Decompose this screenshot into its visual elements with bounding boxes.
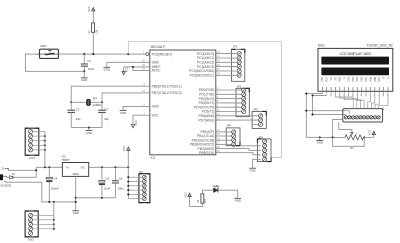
node junction C1/reset xyxy=(83,53,85,55)
JP6 pad 4 xyxy=(355,116,358,119)
ground GND (JP5) xyxy=(249,167,256,169)
svg-text:JP2: JP2 xyxy=(237,84,242,88)
node junction pot-left xyxy=(332,136,334,138)
JP5 pad 1 xyxy=(263,139,267,143)
wire contrast branch to header pad2 xyxy=(306,110,345,112)
LCD pin 15 A xyxy=(383,87,385,91)
svg-text:GND: GND xyxy=(250,169,256,173)
wire PD2(INT0) to JP2 pin 3 xyxy=(220,98,241,100)
resistor R2 220 xyxy=(201,194,204,203)
JP2 pad 3 xyxy=(242,97,246,101)
wire IC2 GND pin to ground xyxy=(75,176,77,210)
wire pot loop (wiper return) xyxy=(333,137,365,146)
svg-text:VO: VO xyxy=(330,77,333,81)
wire IC1 VCC pin7 xyxy=(133,115,145,122)
wire GND header bus up xyxy=(53,202,55,229)
wire AREF pin to VCC xyxy=(124,66,146,68)
wire PC1(ADC1) to JP1 pin 2 xyxy=(220,57,237,59)
node junction C4/ground bus xyxy=(48,201,50,203)
JP1 pad 1 xyxy=(237,52,241,56)
svg-text:PC3(ADC3): PC3(ADC3) xyxy=(197,65,214,69)
LCD pin 11 DB4 xyxy=(365,87,367,91)
wire stub LCD pin15 xyxy=(383,94,385,96)
power symbol VCC (LED1) xyxy=(189,194,191,206)
5V header pad 2 xyxy=(142,180,146,184)
svg-text:3: 3 xyxy=(238,99,239,101)
pin 26 PC3(ADC3) xyxy=(216,66,221,68)
wire XTAL2 PB7 to crystal xyxy=(102,93,145,102)
LCD pin 13 DB6 xyxy=(374,87,376,91)
JP2 pad 5 xyxy=(242,105,246,109)
JP2 pad 4 xyxy=(242,101,246,105)
GND header pad 2 xyxy=(29,218,33,222)
wire AVCC pin joins AREF net xyxy=(133,67,146,71)
pin 4 PD2(INT0) xyxy=(216,98,221,100)
crystal Q1 12MHz xyxy=(85,100,87,106)
wire PB1 to JP4 pin 2 xyxy=(220,135,231,137)
svg-text:R/W: R/W xyxy=(339,76,342,81)
node junction 12VX rail xyxy=(44,166,46,168)
svg-text:4: 4 xyxy=(238,103,239,105)
wire reset net SW1 to IC1 pin PC6 xyxy=(58,53,145,55)
svg-text:12MHz: 12MHz xyxy=(93,103,102,107)
pin 27 PC4(ADC4/SDA) xyxy=(216,70,221,72)
svg-text:VCC: VCC xyxy=(183,192,187,198)
svg-text:100n: 100n xyxy=(117,186,124,190)
svg-text:GND: GND xyxy=(317,141,323,145)
wire jack sleeve to ground bus xyxy=(5,182,76,202)
pin 12 PD6(AIN0) xyxy=(216,115,221,117)
svg-text:2: 2 xyxy=(254,120,255,122)
pin 6 PD4(XCK/T0) xyxy=(216,106,221,108)
pin 16 PB2(SS/OC1B) xyxy=(216,139,221,141)
node junction C4 rail xyxy=(48,166,50,168)
power symbol VCC (5V rail) xyxy=(127,148,129,167)
node junction VSS rail xyxy=(305,93,307,95)
pin 8 GND xyxy=(145,105,149,107)
JP6 pad 8 xyxy=(370,116,373,119)
5V header pad 1 xyxy=(142,175,146,179)
ground GND (pin22) xyxy=(103,66,110,68)
wire LCD VDD (pin2) to header pad1 xyxy=(313,95,346,114)
svg-text:DB6: DB6 xyxy=(374,76,377,81)
wire R1 to reset net xyxy=(92,32,94,54)
JP3 pad 2 xyxy=(258,118,262,122)
svg-text:3: 3 xyxy=(234,62,235,64)
svg-text:4: 4 xyxy=(234,67,235,69)
svg-text:6: 6 xyxy=(238,111,239,113)
node junction crystal-gnd xyxy=(88,127,90,129)
wire LCD VSS (pin1) to contrast/ground rail xyxy=(306,94,322,138)
JP3 pad 1 xyxy=(258,114,262,118)
JP4 pad 2 xyxy=(232,134,236,138)
wire jack switch pin through D1 xyxy=(7,176,10,178)
JP6 pad 10 xyxy=(377,116,380,119)
wire R2 to LED1 xyxy=(202,190,213,194)
svg-text:1k: 1k xyxy=(356,133,358,135)
LCD pin 16 K xyxy=(387,87,389,91)
node junction conn/gnd bus xyxy=(53,201,55,203)
LCD pin 2 VDD xyxy=(326,87,328,91)
svg-text:1: 1 xyxy=(259,141,260,143)
pin 22 GND xyxy=(145,61,149,63)
wire stub LCD pin7 xyxy=(348,94,350,96)
wire stub LCD pin10 xyxy=(361,94,363,96)
svg-text:7805T: 7805T xyxy=(62,158,70,162)
svg-text:2: 2 xyxy=(238,94,239,96)
wire 5V pin 4 xyxy=(128,189,142,191)
svg-text:12VX: 12VX xyxy=(29,156,36,160)
LCD pin 1 VSS xyxy=(321,87,323,91)
ground GND (pin8) xyxy=(120,110,127,112)
wire 12VX bus down to rail xyxy=(44,132,46,168)
wire 5V pin 6 xyxy=(128,198,142,200)
wire 5V bus down xyxy=(127,167,129,198)
JP5 pad 2 xyxy=(263,144,267,148)
wire SW1 return to ground xyxy=(25,54,84,71)
pin 2 PD0(RXD) xyxy=(216,89,221,91)
svg-text:JP4: JP4 xyxy=(226,124,231,128)
ground GND (regulator) xyxy=(72,210,79,212)
connector GND header (bottom-left) xyxy=(25,211,38,237)
capacitor C1 100n xyxy=(83,54,85,64)
svg-text:PB7(XTAL2/TOSC2): PB7(XTAL2/TOSC2) xyxy=(152,91,182,95)
JP2 pad 6 xyxy=(242,109,246,113)
svg-text:3: 3 xyxy=(228,140,229,142)
wire PB2 to JP4 pin 3 xyxy=(220,139,231,141)
wire PD4(XCK/T0) to JP2 pin 5 xyxy=(220,106,241,108)
wire header to pot left xyxy=(333,120,343,138)
GND header pad 5 xyxy=(29,231,33,235)
svg-text:JP1: JP1 xyxy=(233,44,238,48)
svg-text:PD7(AIN1): PD7(AIN1) xyxy=(198,118,214,122)
LCD row 2 (black bar) xyxy=(321,68,389,76)
wire LCD VO (pin3) stub xyxy=(330,94,332,96)
5V header pad 3 xyxy=(142,184,146,188)
node junction C6/rail xyxy=(114,166,116,168)
pin 9 PB6(XTAL1/TOSC1) xyxy=(145,85,149,87)
GND header pad 1 xyxy=(29,213,33,217)
svg-text:GND: GND xyxy=(152,105,160,109)
12VX pad 2 xyxy=(29,134,33,138)
capacitor C5 10uF xyxy=(101,167,103,180)
svg-text:22p: 22p xyxy=(76,117,81,121)
wire stub LCD pin11 xyxy=(365,94,367,96)
svg-text:100uF: 100uF xyxy=(51,186,59,190)
node junction pot-right xyxy=(363,136,365,138)
svg-text:2: 2 xyxy=(234,58,235,60)
svg-text:DB5: DB5 xyxy=(369,76,372,81)
svg-text:1: 1 xyxy=(234,54,235,56)
svg-text:DIS1: DIS1 xyxy=(318,44,325,48)
wire PD7 to JP3 pin 2 xyxy=(220,119,258,121)
JP6 pad 2 xyxy=(348,116,351,119)
JP5 pad 3 xyxy=(263,148,267,152)
svg-text:VO: VO xyxy=(81,166,86,170)
wire +12V rail to IC2 VI xyxy=(36,166,62,168)
svg-text:1: 1 xyxy=(254,116,255,118)
node junction bus2 xyxy=(75,201,77,203)
LCD pin 9 DB2 xyxy=(356,87,358,91)
JP1 pad 6 xyxy=(237,73,241,77)
svg-text:VCC: VCC xyxy=(134,120,138,126)
pin 11 PD5(T1) xyxy=(216,111,221,113)
pin 3 PD1(TXD) xyxy=(216,93,221,95)
capacitor C6 100n xyxy=(114,167,116,181)
svg-text:PC5(ADC5/SCL): PC5(ADC5/SCL) xyxy=(190,74,215,78)
svg-text:DB7: DB7 xyxy=(378,76,381,81)
svg-text:VI: VI xyxy=(66,166,69,170)
JP2 pad 2 xyxy=(242,92,246,96)
power symbol VCC (pin7) xyxy=(131,124,134,127)
JP6 pad 5 xyxy=(359,116,362,119)
JP1 pad 5 xyxy=(237,69,241,73)
svg-text:10uF: 10uF xyxy=(104,186,111,190)
node junction VDD rail xyxy=(311,94,313,96)
wire PC2(ADC2) to JP1 pin 3 xyxy=(220,61,237,63)
ground GND (C1/SW1) xyxy=(83,71,85,78)
svg-text:DB4: DB4 xyxy=(365,76,368,81)
svg-text:22p: 22p xyxy=(104,117,109,121)
svg-text:C1: C1 xyxy=(87,59,91,63)
wire header to pot wiper xyxy=(339,122,352,132)
JP5 pad 5 xyxy=(263,157,267,161)
connector 12VX header xyxy=(25,128,39,155)
ground GND (LCD) xyxy=(319,137,321,140)
5V header pad 6 xyxy=(142,197,146,201)
node junction crystal-right xyxy=(101,101,103,103)
svg-text:DB1: DB1 xyxy=(352,76,355,81)
svg-text:DB3: DB3 xyxy=(361,76,364,81)
wire PB5 to JP5 pin 4 xyxy=(220,153,260,155)
wire 5V pin 3 xyxy=(128,185,142,187)
wire XTAL1 PB6 to crystal xyxy=(71,86,145,102)
wire IC2 VO 5V rail xyxy=(89,166,129,168)
JP6 pad 9 xyxy=(373,116,376,119)
wire PC5(ADC5/SCL) to JP1 pin 6 xyxy=(220,74,237,76)
wire VCC to R2 xyxy=(190,203,203,206)
svg-text:VCC: VCC xyxy=(87,6,91,12)
svg-text:IC1: IC1 xyxy=(151,156,156,160)
pin 25 PC2(ADC2) xyxy=(216,61,221,63)
node junction crystal-left xyxy=(70,101,72,103)
wire GND header pin 2 xyxy=(33,219,54,221)
wire stub LCD pin8 xyxy=(352,94,354,96)
pin 1 PC6/RESET with bubble xyxy=(143,53,146,55)
node junction C1-bottom/ground xyxy=(83,70,85,72)
LCD pin 5 R/W xyxy=(339,87,341,91)
ground GND (LED1) xyxy=(234,197,241,199)
LCD pin 4 RS xyxy=(334,87,336,91)
pin 18 PB4(MISO) xyxy=(216,148,221,150)
power symbol VCC (AVCC) xyxy=(123,67,125,73)
wire 5V pin 1 xyxy=(128,176,142,178)
wire PD6 to JP3 pin 1 xyxy=(220,115,258,117)
power symbol VCC (R1 pull-up) xyxy=(92,9,94,23)
JP1 pad 4 xyxy=(237,65,241,69)
svg-text:GND: GND xyxy=(152,61,160,65)
12VX pad 4 xyxy=(29,143,33,147)
wire 12VX pin 2 xyxy=(33,135,45,137)
wire pot right to VCC xyxy=(363,136,371,138)
svg-text:VCC: VCC xyxy=(124,67,128,73)
svg-text:VDD: VDD xyxy=(326,77,329,82)
svg-text:1: 1 xyxy=(228,132,229,134)
wire to JP5 pin 2 xyxy=(240,145,261,147)
pin 24 PC1(ADC1) xyxy=(216,57,221,59)
12VX pad 1 xyxy=(29,129,33,133)
pin 7 VCC xyxy=(145,114,149,116)
wires LCD data pins to header (bundle) xyxy=(335,94,353,109)
capacitor C4 100uF xyxy=(48,167,50,177)
wire jack tip to +12V rail xyxy=(8,167,36,170)
capacitor C2 22p xyxy=(70,102,72,110)
svg-text:C3: C3 xyxy=(104,108,108,112)
svg-text:GND: GND xyxy=(86,131,92,135)
pin 14 PB0(ICP) xyxy=(216,131,221,133)
wire 12VX pin 5 xyxy=(33,149,45,151)
pin 19 PB5(SCK) xyxy=(216,152,221,154)
wire PD0(RXD) to JP2 pin 1 xyxy=(220,89,241,91)
svg-text:RS: RS xyxy=(334,77,337,81)
svg-text:GND: GND xyxy=(73,211,79,215)
wire reset branch to JP5 (long route) xyxy=(128,41,281,157)
svg-text:Q1: Q1 xyxy=(93,96,97,100)
svg-text:GND: GND xyxy=(104,68,110,72)
svg-text:LCD DISPLAY 16X2: LCD DISPLAY 16X2 xyxy=(340,52,372,56)
pin 13 PD7(AIN1) xyxy=(216,119,221,121)
wire PB4 to JP5 pin 3 xyxy=(220,149,260,151)
12VX pad 3 xyxy=(29,139,33,143)
JP4 pad 4 xyxy=(232,142,236,146)
pin 10 PB7(XTAL2/TOSC2) xyxy=(145,92,149,94)
svg-text:LED1: LED1 xyxy=(213,184,220,188)
pin 5 PD3(INT1) xyxy=(216,102,221,104)
svg-text:J1: J1 xyxy=(1,167,4,171)
wire PC3(ADC3) to JP1 pin 4 xyxy=(220,66,237,68)
node junction VCC/rail xyxy=(127,166,129,168)
wire contrast rail xyxy=(320,136,345,138)
JP6 pad 6 xyxy=(363,116,366,119)
svg-text:VSS: VSS xyxy=(321,77,324,82)
JP1 pad 2 xyxy=(237,56,241,60)
pin 28 PC5(ADC5/SCL) xyxy=(216,74,221,76)
svg-text:JP3: JP3 xyxy=(253,108,258,112)
wire LED1 to ground xyxy=(218,190,238,198)
svg-text:GND: GND xyxy=(73,172,79,176)
svg-text:DCJ0202: DCJ0202 xyxy=(1,183,12,187)
wire PB3 to JP4 pin 4 xyxy=(220,143,231,145)
JP2 pad 1 xyxy=(242,88,246,92)
svg-text:GND: GND xyxy=(28,237,34,241)
svg-text:C6: C6 xyxy=(119,177,123,181)
wire PC4(ADC4/SDA) to JP1 pin 5 xyxy=(220,70,237,72)
svg-text:GND: GND xyxy=(81,78,87,82)
node junction D1/rail xyxy=(35,169,37,171)
wire 5V pin 2 xyxy=(128,181,142,183)
svg-text:SW1: SW1 xyxy=(40,44,47,48)
12VX pad 5 xyxy=(29,148,33,152)
wire 12VX pin 3 xyxy=(33,140,45,142)
ground GND (crystal) xyxy=(88,128,90,131)
wire PB0 to JP4 pin 1 xyxy=(220,131,231,133)
svg-text:220: 220 xyxy=(204,199,207,204)
resistor R1 10k xyxy=(92,23,95,32)
node junction JP5-branch/reset xyxy=(127,53,129,55)
wire IC1 GND pin22 to ground xyxy=(107,62,146,67)
svg-text:C5: C5 xyxy=(105,177,109,181)
svg-text:DB0: DB0 xyxy=(347,76,350,81)
svg-text:100n: 100n xyxy=(88,67,95,71)
svg-text:GND: GND xyxy=(235,199,241,203)
LCD row 1 (black bar) xyxy=(321,57,389,65)
wire GND header pin 3 xyxy=(33,223,54,225)
pin 17 PB3(MOSI/OC2) xyxy=(216,143,221,145)
svg-text:MEGA8-P: MEGA8-P xyxy=(151,45,167,49)
svg-text:1: 1 xyxy=(238,90,239,92)
svg-text:C4: C4 xyxy=(53,176,57,180)
wire PD1(TXD) to JP2 pin 2 xyxy=(220,93,241,95)
svg-text:PC6(/RESET): PC6(/RESET) xyxy=(152,52,173,56)
wire PC0(ADC0) to JP1 pin 1 xyxy=(220,53,237,55)
svg-text:6: 6 xyxy=(234,75,235,77)
svg-text:PC0(ADC0): PC0(ADC0) xyxy=(197,52,214,56)
node junction C5/rail xyxy=(101,166,103,168)
JP6 pad 7 xyxy=(366,116,369,119)
svg-text:GND: GND xyxy=(120,111,126,115)
wire IC1 GND pin8 to ground xyxy=(123,106,145,110)
trimmer R3 (contrast pot) xyxy=(345,135,363,140)
wire GND header pin 1 xyxy=(33,214,54,216)
5V header pad 4 xyxy=(142,188,146,192)
svg-text:VCC: VCC xyxy=(122,146,126,152)
LCD pin 14 DB7 xyxy=(378,87,380,91)
node junction rail/GND xyxy=(319,136,321,138)
wire JP5 pin 5 to ground xyxy=(253,159,261,168)
svg-text:AVCC: AVCC xyxy=(152,69,162,73)
wire ground bus (C5/C6) xyxy=(76,197,116,199)
JP6 pad 1 xyxy=(344,116,347,119)
header JP6 (LCD interface) xyxy=(343,109,383,122)
power symbol VCC (LCD) xyxy=(373,132,375,137)
pin 20 AREF xyxy=(145,66,149,68)
JP5 pad 4 xyxy=(263,153,267,157)
svg-text:PB6(XTAL1/TOSC1): PB6(XTAL1/TOSC1) xyxy=(152,84,182,88)
svg-text:3: 3 xyxy=(254,124,255,126)
node junction R1/reset xyxy=(92,53,94,55)
svg-text:DB2: DB2 xyxy=(356,76,359,81)
LCD pin 6 E xyxy=(343,87,345,91)
JP1 pad 3 xyxy=(237,60,241,64)
wire PD5(T1) to JP2 pin 6 xyxy=(220,111,241,113)
svg-text:VCC: VCC xyxy=(152,113,160,117)
svg-text:TUXGR_16X2_R2: TUXGR_16X2_R2 xyxy=(367,44,393,48)
capacitor C3 22p xyxy=(101,102,103,110)
svg-text:5: 5 xyxy=(234,71,235,73)
LCD pin 8 DB1 xyxy=(352,87,354,91)
pin 15 PB1(OC1A) xyxy=(216,135,221,137)
wire PD3(INT1) to JP2 pin 4 xyxy=(220,102,241,104)
node junction AREF/AVCC xyxy=(132,66,134,68)
LCD pin 3 VO xyxy=(330,87,332,91)
svg-text:PB5(SCK): PB5(SCK) xyxy=(199,151,214,155)
node junction contrast branch xyxy=(305,110,307,112)
LCD pin 12 DB5 xyxy=(369,87,371,91)
wire 5V pin 5 xyxy=(128,193,142,195)
GND header pad 3 xyxy=(29,222,33,226)
svg-text:C2: C2 xyxy=(76,108,80,112)
wire GND header pin 4 xyxy=(33,228,54,230)
